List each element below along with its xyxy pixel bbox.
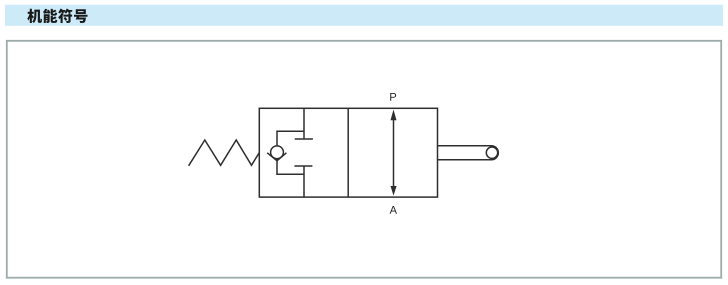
plunger rod [438, 146, 499, 160]
arrow shaft P to A [393, 119, 395, 188]
upper pin wire [303, 108, 305, 139]
header title 机能符号 [27, 9, 87, 23]
upper pin T-bar [295, 138, 313, 140]
port label P [390, 93, 396, 101]
lower pin T-bar [294, 165, 312, 167]
divider line [347, 108, 349, 197]
upper bracket wire [277, 131, 304, 146]
check valve ball [271, 146, 284, 159]
lower pin wire [303, 166, 305, 197]
spring [189, 140, 260, 166]
header bar [5, 5, 723, 26]
arrowhead up at P [391, 110, 397, 121]
roller circle [486, 147, 497, 158]
port label A [390, 206, 397, 214]
valve body [259, 108, 437, 197]
lower bracket wire [277, 159, 304, 175]
arrowhead down at A [391, 186, 397, 196]
valve seat [267, 153, 286, 161]
